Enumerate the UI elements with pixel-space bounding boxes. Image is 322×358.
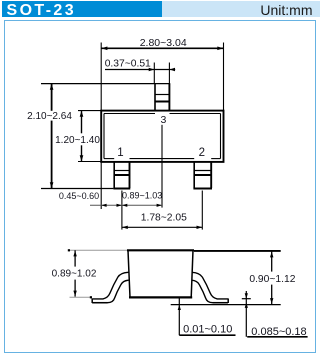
svg-text:0.01~0.10: 0.01~0.10 bbox=[183, 323, 232, 335]
svg-text:2: 2 bbox=[199, 147, 205, 159]
dimension 1.78~2.05: value label bbox=[141, 212, 187, 223]
svg-text:2.10~2.64: 2.10~2.64 bbox=[27, 111, 72, 122]
dimension 2.80~3.04: value label bbox=[140, 37, 187, 49]
top view body outer outline bbox=[101, 111, 223, 162]
dimension 0.01~0.10: underline bbox=[179, 334, 235, 336]
dimension 0.085~0.18: leader line, tick and arrows bbox=[242, 291, 251, 337]
dimension 0.89~1.03: value label bbox=[122, 191, 162, 201]
dimension 0.085~0.18: value label bbox=[251, 326, 306, 338]
dimension 1.20~1.40: extension lines bbox=[78, 111, 101, 162]
dimension 0.01~0.10: leader line and arrow bbox=[178, 298, 181, 336]
dimension 1.20~1.40: value label bbox=[55, 135, 100, 146]
top view body inner outline bbox=[104, 114, 221, 159]
package center line bbox=[161, 125, 163, 208]
svg-text:2.80~3.04: 2.80~3.04 bbox=[140, 37, 187, 49]
pin 1 bottom edge + extension to left dimension bbox=[41, 188, 130, 190]
pin 3 label bbox=[160, 114, 166, 126]
side view body bbox=[127, 250, 194, 297]
dimension 2.10~2.64: value label bbox=[27, 111, 72, 122]
svg-text:0.89~1.02: 0.89~1.02 bbox=[52, 269, 97, 280]
pin 2 label bbox=[199, 147, 205, 159]
dimension 0.90~1.12: value label bbox=[249, 274, 295, 285]
svg-text:0.37~0.51: 0.37~0.51 bbox=[105, 58, 151, 69]
dimension 2.80~3.04: extension lines bbox=[101, 43, 223, 111]
dimension 0.89~1.02: extension lines with end dots bbox=[68, 249, 127, 298]
dimension 1.78~2.05: extension line pin 2 center bbox=[201, 191, 203, 230]
dimension 0.45~0.60: value label bbox=[59, 191, 99, 201]
body top extension to right dimension bbox=[194, 250, 281, 252]
svg-text:0.085~0.18: 0.085~0.18 bbox=[251, 326, 306, 338]
dimension 1.78~2.05: dimension line and arrows bbox=[122, 226, 202, 229]
svg-text:0.90~1.12: 0.90~1.12 bbox=[249, 274, 295, 285]
side view right gull-wing lead bbox=[192, 272, 229, 303]
dimension 0.90~1.12: dimension line and arrows bbox=[270, 251, 273, 304]
svg-text:1.20~1.40: 1.20~1.40 bbox=[55, 135, 100, 146]
svg-text:1: 1 bbox=[117, 147, 123, 159]
pin 3 top edge + extension line to left dimension bbox=[41, 83, 170, 85]
dimension 0.89~1.02: dimension line and arrows bbox=[73, 250, 76, 296]
svg-text:1.78~2.05: 1.78~2.05 bbox=[141, 212, 187, 223]
seating plane line bbox=[171, 304, 281, 306]
dimension 0.37~0.51: dimension line and outside arrows bbox=[105, 68, 175, 71]
dimension 0.45~0.60 / 0.89~1.03: shared extension lines bbox=[101, 162, 122, 230]
dimension 2.80~3.04: dimension line and arrows bbox=[101, 47, 223, 51]
dimension 0.37~0.51: extension lines bbox=[154, 63, 169, 84]
pin 1 label bbox=[117, 147, 123, 159]
pin 1 (bottom left) bbox=[114, 162, 129, 188]
dimension 1.20~1.40: dimension line and arrows bbox=[80, 111, 84, 162]
svg-text:3: 3 bbox=[160, 114, 166, 126]
svg-text:0.89~1.03: 0.89~1.03 bbox=[122, 191, 162, 201]
dimension 0.45~0.60: dimension line and arrows bbox=[90, 204, 162, 207]
dimension 0.89~1.02: value label bbox=[52, 269, 97, 280]
pin 3 tab (top) bbox=[155, 84, 169, 111]
header bar bbox=[2, 1, 320, 17]
side view left gull-wing lead bbox=[92, 272, 128, 303]
dimension 0.37~0.51: value label bbox=[105, 58, 151, 69]
svg-text:0.45~0.60: 0.45~0.60 bbox=[59, 191, 99, 201]
pin 2 (bottom right) bbox=[193, 162, 212, 189]
dimension 2.10~2.64: dimension line and arrows bbox=[50, 84, 54, 189]
dimension 0.01~0.10: value label bbox=[183, 323, 232, 335]
dimension 0.89~1.03: arrows at center line bbox=[122, 204, 162, 207]
dimension 0.085~0.18: underline bbox=[247, 336, 307, 338]
